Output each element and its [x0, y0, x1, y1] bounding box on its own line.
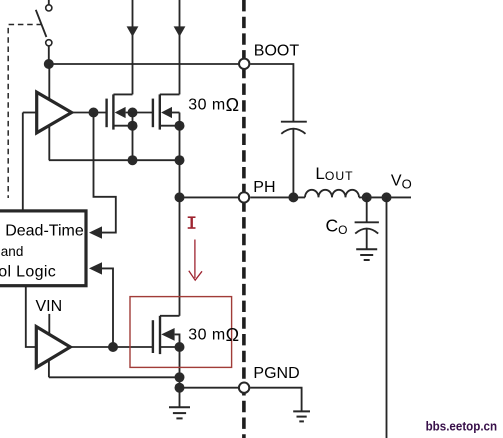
- svg-text:bbs.eetop.cn: bbs.eetop.cn: [426, 419, 498, 434]
- arrow into logic box (bottom): [89, 262, 102, 274]
- transistor Q3 channel bar: [159, 316, 161, 354]
- inductor L-OUT: [305, 190, 359, 198]
- wire: PGND pin to external ground: [250, 388, 302, 411]
- label I (current): [188, 217, 196, 228]
- ground symbol below CO: [356, 249, 377, 260]
- wire: Q3 body tie: [175, 334, 180, 347]
- wire: CO top lead: [366, 197, 368, 222]
- wire: VO drop to bottom edge: [386, 197, 388, 438]
- wire: switch to BOOT rail: [48, 46, 50, 64]
- IC boundary dashed line: [242, 0, 246, 438]
- svg-text:PGND: PGND: [253, 365, 299, 382]
- node: CO tie: [362, 192, 372, 202]
- svg-text:CO: CO: [326, 215, 348, 236]
- wire: driver U1 return stub to source rail: [48, 127, 50, 161]
- pin PGND: [239, 383, 249, 393]
- transistor Q2 body arrow: [161, 107, 172, 118]
- switch S1 bottom contact: [46, 40, 52, 46]
- ground symbol below Q3: [169, 407, 190, 418]
- svg-text:VO: VO: [391, 172, 412, 191]
- red highlight box around Q3: [130, 297, 232, 368]
- wire: gate node drop to logic box arrow 1: [94, 113, 116, 233]
- transistor Q2 channel bar: [159, 94, 161, 129]
- node: VO tie: [382, 192, 392, 202]
- svg-text:Dead-Time: Dead-Time: [5, 223, 84, 240]
- wire: BOOT rail: [49, 63, 239, 65]
- svg-text:30 mΩ: 30 mΩ: [188, 95, 239, 115]
- svg-text:VIN: VIN: [36, 298, 63, 315]
- current arrow down on VIN feed 1: [127, 26, 139, 36]
- capacitor CO top plate: [355, 221, 379, 223]
- node: rail junction 1: [128, 155, 138, 165]
- current arrow down on VIN feed 2: [174, 26, 186, 36]
- node: boot cap tie on PH: [288, 192, 298, 202]
- node: Q2 source tie: [175, 121, 185, 131]
- logic box: [0, 211, 86, 286]
- wire: driver U2 return stub: [48, 361, 50, 378]
- switch S1 lever: [36, 10, 47, 37]
- node: Q3 source: [175, 342, 185, 352]
- driver U1 (high-side) supply stub from BOOT: [48, 64, 50, 100]
- svg-text:and: and: [1, 244, 24, 259]
- wire: PH rail to pin: [180, 196, 239, 198]
- ground symbol at PGND: [293, 411, 310, 421]
- wire: driver U2 output to Q3 gate: [70, 346, 153, 348]
- arrow into logic box (top): [89, 226, 102, 238]
- wire: VIN feed 1 from top: [132, 0, 134, 94]
- pin PH: [239, 192, 249, 202]
- svg-text:BOOT: BOOT: [254, 42, 300, 59]
- wire: driver U1 input: [23, 112, 37, 114]
- node: BOOT junction: [44, 59, 54, 69]
- wire: Q1 body/source drop: [132, 113, 134, 161]
- svg-text:30 mΩ: 30 mΩ: [188, 325, 239, 345]
- red current arrow: [189, 240, 202, 281]
- transistor Q3 source plate: [160, 346, 180, 348]
- wire: driver U1 output to gates: [72, 112, 107, 114]
- node: Q1 source tie: [128, 121, 138, 131]
- wire: source rail down to PH node: [179, 160, 181, 197]
- svg-text:PH: PH: [253, 179, 275, 196]
- wire: PGND rail to pin: [180, 387, 239, 389]
- driver U2 VIN supply stub: [48, 314, 50, 335]
- transistor Q3 body arrow: [161, 328, 174, 341]
- transistor Q2 source plate: [160, 125, 180, 127]
- transistor Q2 drain plate: [160, 93, 180, 95]
- wire: boot capacitor to PH rail: [292, 129, 294, 197]
- node: Q1 body tie: [128, 108, 138, 118]
- node: PGND tie: [175, 383, 185, 393]
- pin BOOT: [239, 59, 249, 69]
- svg-text:ol Logic: ol Logic: [0, 263, 56, 280]
- wire: gate link Q1 to Q2: [126, 112, 153, 114]
- driver U2 triangle: [36, 327, 70, 368]
- driver U1 triangle: [37, 92, 72, 133]
- svg-text:LOUT: LOUT: [315, 164, 353, 183]
- wire: Q2 arrow to body drop: [172, 112, 180, 114]
- node: Q3 gate junction: [108, 342, 118, 352]
- wire: stub above switch: [48, 0, 50, 5]
- wire: PH pin to inductor: [250, 196, 305, 198]
- wire: driver U1 input to logic box: [22, 113, 24, 211]
- wire: logic box arrow 2 to low-side gate: [102, 268, 113, 347]
- transistor Q3 gate bar: [152, 320, 154, 353]
- wire: Q2 body/source drop: [179, 113, 181, 161]
- capacitor C-boot curved plate: [281, 129, 305, 134]
- wire: high-side source rail: [49, 159, 180, 161]
- dashed control line to switch: [8, 25, 42, 199]
- wire: BOOT pin to boot capacitor: [250, 64, 293, 121]
- node: gate junction: [89, 108, 99, 118]
- transistor Q1 drain plate: [113, 93, 132, 95]
- wire: inductor to VO: [359, 196, 411, 198]
- node: driver return tie: [175, 372, 185, 382]
- transistor Q1 gate bar: [105, 99, 107, 128]
- wire: driver U2 return rail: [49, 376, 180, 378]
- switch S1 top contact: [46, 5, 52, 11]
- capacitor CO curved plate: [355, 229, 378, 234]
- capacitor C-boot top plate: [281, 121, 307, 123]
- wire: logic box to driver U2 input: [26, 286, 37, 347]
- wire: PH node down to Q3 drain: [179, 197, 181, 315]
- wire: Q3 source down to ground: [179, 347, 181, 407]
- wire: CO bottom lead: [366, 229, 368, 249]
- transistor Q1 body arrow: [115, 107, 126, 118]
- transistor Q2 gate bar: [152, 99, 154, 128]
- wire: VIN feed 2 from top: [179, 0, 181, 94]
- transistor Q3 drain plate: [160, 315, 180, 317]
- node: rail junction 2: [175, 155, 185, 165]
- transistor Q1 source plate: [113, 125, 132, 127]
- node: PH junction: [175, 192, 185, 202]
- transistor Q1 channel bar: [112, 94, 114, 129]
